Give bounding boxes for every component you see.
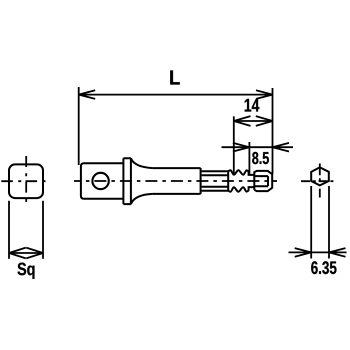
label 8.5	[252, 152, 269, 164]
dim 6.35: dimension line and inward arrows	[289, 248, 347, 257]
right view: horizontal centerline	[301, 180, 335, 182]
label 6.35	[311, 261, 336, 274]
side view: square drive body	[81, 163, 124, 198]
label L	[170, 70, 179, 84]
dim Sq: dimension line with outward arrows	[9, 248, 43, 259]
label Sq	[18, 263, 35, 279]
dim L: left extension line	[78, 87, 80, 165]
side view: flange collar	[123, 158, 130, 204]
dim Sq: extension lines	[9, 201, 43, 259]
dim 6.35: extension lines	[311, 186, 329, 259]
dim L / 14 / 8.5: right extension line	[272, 88, 274, 174]
left view: vertical centerline	[25, 156, 27, 203]
side view: C-ring notch	[249, 171, 255, 190]
left view: square cross-section	[9, 164, 43, 198]
side view: ball groove wave	[228, 170, 248, 191]
left view: horizontal centerline	[1, 180, 47, 182]
side view: hex shank section	[202, 171, 229, 191]
side view: hex tip block	[254, 171, 272, 191]
dim 14: dimension line with outward arrows	[234, 116, 273, 126]
side view: shaft	[152, 168, 200, 194]
dim 8.5: left extension line	[248, 142, 250, 174]
main centerline of side view	[74, 180, 277, 182]
side view: taper to shaft	[131, 158, 153, 204]
label 14	[245, 99, 260, 112]
dim 8.5: dimension line and inward arrows	[222, 143, 294, 152]
side view: pin hole circle	[92, 173, 108, 189]
dim 14: left extension line	[233, 116, 235, 175]
dim L: dimension line with arrows	[79, 90, 273, 99]
right view: vertical centerline	[319, 164, 321, 198]
right view: hex cross-section	[311, 167, 329, 185]
